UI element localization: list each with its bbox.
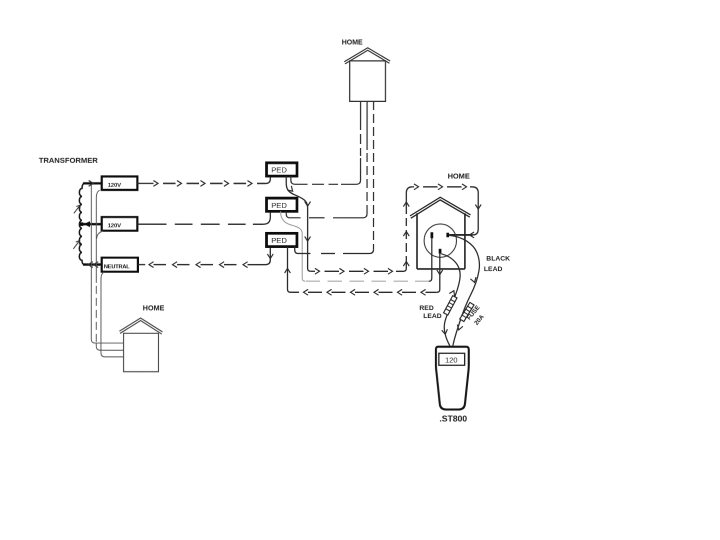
svg-text:LEAD: LEAD — [484, 266, 503, 273]
svg-text:LEAD: LEAD — [423, 313, 442, 320]
svg-text:HOME: HOME — [143, 304, 165, 313]
svg-text:HOME: HOME — [448, 172, 470, 181]
svg-text:BLACK: BLACK — [486, 255, 510, 262]
svg-text:RED: RED — [419, 305, 433, 312]
svg-text:PED: PED — [271, 166, 287, 175]
svg-text:HOME: HOME — [342, 40, 363, 47]
svg-text:PED: PED — [271, 201, 287, 210]
svg-text:120V: 120V — [108, 223, 122, 229]
svg-text:TRANSFORMER: TRANSFORMER — [39, 156, 99, 165]
svg-text:.ST800: .ST800 — [439, 413, 467, 423]
svg-text:120: 120 — [445, 355, 457, 364]
svg-text:NEUTRAL: NEUTRAL — [104, 264, 130, 270]
svg-text:120V: 120V — [108, 183, 122, 189]
svg-text:PED: PED — [271, 236, 287, 245]
